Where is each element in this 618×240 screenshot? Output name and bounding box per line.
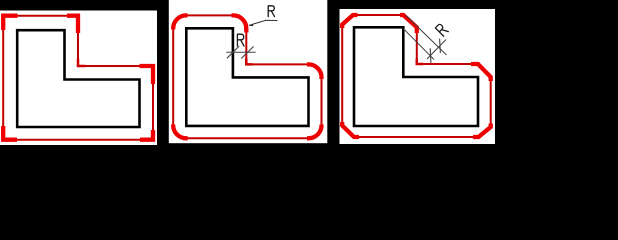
- thick corner TL P1: [3, 16, 17, 30]
- thick chamfer BR P3: [473, 124, 491, 138]
- panel 1 white background: [0, 11, 157, 146]
- red toolpath (chamfered corners) P3: [342, 15, 491, 137]
- thick arc TL P2: [173, 15, 187, 29]
- thick arc top-right of tall part P2: [232, 15, 247, 32]
- thick concave corner P1: [78, 59, 86, 67]
- oblique tick at red path, panel 2: [241, 46, 253, 58]
- leader line for top R, panel 2: [249, 20, 278, 25]
- arrowhead of leader, panel 2: [248, 23, 254, 26]
- black L-shape outline P1: [17, 30, 139, 127]
- dimension line (diagonal), panel 3: [427, 40, 446, 60]
- thick arc BL P2: [173, 125, 188, 139]
- thick corner BL P1: [3, 126, 17, 140]
- thick chamfer top-right of tall part P3: [400, 15, 417, 33]
- label R (top, panel 2): [268, 6, 274, 17]
- extension line 1 (chamfer extension), panel 3: [406, 16, 447, 56]
- thick arc BR P2: [307, 125, 322, 139]
- thick corner step-right P1: [140, 66, 154, 84]
- label R (inner, panel 2): [237, 34, 244, 46]
- thick chamfer TL P3: [342, 15, 357, 28]
- label R rotated, panel 3: [435, 23, 448, 36]
- tick at lower extension, panel 3: [429, 48, 432, 63]
- extension line 2 (from black corner), panel 3: [404, 29, 435, 60]
- oblique tick at black edge, panel 2: [227, 46, 239, 58]
- red toolpath (sharp corners) P1: [3, 16, 153, 140]
- panel 3 white background: [340, 9, 496, 144]
- thick chamfer BL P3: [342, 122, 359, 137]
- thick corner top-right of tall part P1: [67, 16, 78, 33]
- panel 2 white background: [169, 0, 327, 143]
- thick corner BR P1: [140, 130, 153, 140]
- thick concave corner P3: [417, 59, 423, 65]
- black L-shape outline P3: [354, 27, 478, 126]
- dimension line (inner R, panel 2): [226, 51, 255, 53]
- black L-shape outline P2: [186, 28, 308, 126]
- tick at upper extension, panel 3: [439, 39, 442, 54]
- thick chamfer step-right P3: [471, 64, 491, 81]
- thick concave corner P2: [246, 59, 252, 65]
- red toolpath (rounded corners) P2: [173, 15, 321, 138]
- thick arc step-right P2: [307, 64, 322, 79]
